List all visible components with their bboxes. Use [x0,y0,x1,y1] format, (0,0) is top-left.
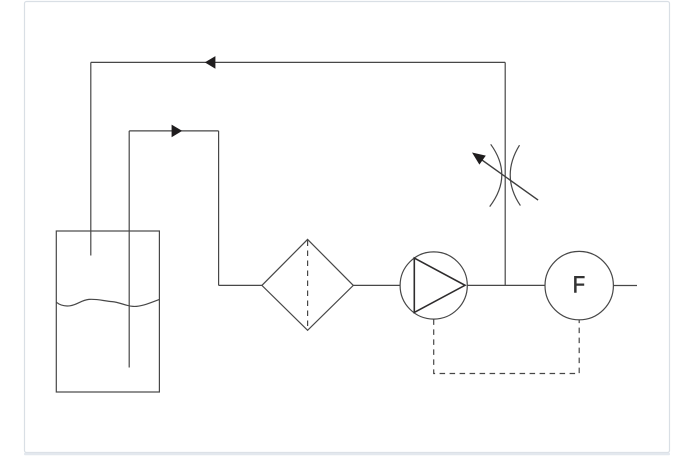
flow meter label F [574,276,585,293]
control line (dashed) pump to flow meter [434,319,580,373]
flow arrow: suction line (points right) [172,125,183,138]
wire: filter to pump [353,284,400,286]
wire: pump to flow meter [467,284,545,286]
tank [56,231,159,392]
pump rotor triangle [414,258,465,312]
wire: suction dip tube into tank [128,131,130,368]
pump circle [400,252,467,319]
flow arrow: return line (points left) [205,56,216,69]
valve: left arc [490,144,502,206]
valve: adjustment arrow shaft [479,158,539,201]
wire: tank line to filter [219,284,262,286]
wire: suction line horizontal [129,130,218,132]
wire: valve branch vertical [504,62,506,285]
valve: right arc [510,145,520,205]
fluid level wavy line [56,299,159,306]
flow meter circle [545,251,613,319]
filter element (dashed vertical) [307,241,309,330]
filter (diamond) [262,239,353,330]
valve: adjustment arrowhead [472,153,486,165]
wire: flow meter outlet [614,285,638,287]
wire: return line drop into tank [90,62,92,255]
wire: suction line drop to filter level [218,131,220,286]
wire: return line top horizontal [91,61,505,63]
